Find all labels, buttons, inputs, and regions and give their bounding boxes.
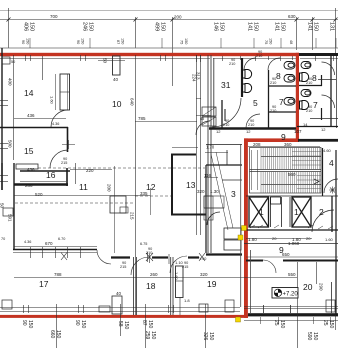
svg-text:320: 320 [197, 189, 205, 194]
svg-text:210: 210 [248, 123, 254, 127]
svg-text:12: 12 [216, 129, 221, 134]
svg-text:45: 45 [200, 117, 204, 121]
svg-text:150: 150 [123, 321, 129, 330]
svg-text:150: 150 [80, 320, 86, 329]
svg-text:785: 785 [138, 116, 146, 121]
svg-text:5: 5 [253, 98, 258, 108]
svg-text:12: 12 [246, 129, 251, 134]
svg-text:670: 670 [45, 241, 53, 246]
svg-text:320: 320 [200, 272, 208, 277]
svg-text:290: 290 [319, 283, 324, 291]
svg-text:150: 150 [29, 22, 35, 31]
svg-text:286: 286 [25, 183, 33, 188]
svg-text:18: 18 [146, 281, 156, 291]
svg-text:31: 31 [221, 80, 231, 90]
svg-text:1.60: 1.60 [325, 237, 334, 242]
svg-text:591: 591 [8, 214, 13, 222]
svg-text:8: 8 [312, 73, 317, 83]
svg-text:13: 13 [186, 180, 196, 190]
svg-text:520: 520 [35, 192, 43, 197]
svg-text:1.30: 1.30 [210, 189, 219, 194]
svg-text:400: 400 [8, 78, 13, 86]
svg-text:150: 150 [253, 22, 259, 31]
svg-text:150: 150 [219, 22, 225, 31]
svg-text:210: 210 [256, 54, 262, 58]
svg-text:19: 19 [207, 279, 217, 289]
svg-text:150: 150 [208, 332, 214, 341]
svg-text:788: 788 [54, 272, 62, 277]
svg-text:210: 210 [146, 251, 152, 255]
svg-text:640: 640 [130, 98, 135, 106]
svg-text:150: 150 [147, 320, 153, 329]
svg-text:14: 14 [24, 88, 34, 98]
svg-text:14: 14 [303, 122, 308, 127]
svg-text:150: 150 [27, 320, 33, 329]
svg-text:9: 9 [281, 132, 286, 142]
svg-text:1.8: 1.8 [184, 298, 190, 303]
svg-text:48: 48 [289, 40, 293, 44]
svg-text:+7.20: +7.20 [283, 292, 299, 298]
svg-text:220: 220 [86, 168, 94, 173]
svg-text:87: 87 [116, 40, 120, 44]
svg-text:1: 1 [259, 207, 264, 217]
svg-text:630: 630 [288, 14, 296, 19]
svg-text:700: 700 [50, 14, 58, 19]
svg-text:210: 210 [306, 109, 312, 113]
svg-text:40: 40 [113, 77, 119, 82]
svg-text:90: 90 [21, 40, 25, 44]
svg-text:17: 17 [39, 279, 49, 289]
svg-text:6.75: 6.75 [140, 242, 147, 246]
svg-text:335: 335 [140, 191, 148, 196]
svg-text:1: 1 [294, 207, 299, 217]
svg-text:200: 200 [174, 15, 182, 20]
svg-text:40: 40 [116, 291, 122, 296]
svg-text:4: 4 [329, 158, 334, 168]
svg-text:15: 15 [24, 146, 34, 156]
svg-text:150: 150 [269, 38, 273, 44]
svg-text:210: 210 [223, 123, 229, 127]
svg-text:150: 150 [279, 320, 285, 329]
svg-text:16: 16 [46, 170, 56, 180]
svg-text:150: 150 [55, 330, 61, 339]
svg-text:1.060: 1.060 [288, 241, 300, 246]
svg-text:210: 210 [270, 81, 276, 85]
svg-text:150: 150 [313, 22, 319, 31]
svg-text:50: 50 [0, 203, 5, 209]
svg-text:20: 20 [306, 236, 311, 241]
svg-text:1.40: 1.40 [199, 257, 206, 261]
svg-text:150: 150 [280, 22, 286, 31]
svg-text:150: 150 [160, 22, 166, 31]
svg-text:20: 20 [272, 236, 277, 241]
svg-text:215: 215 [120, 265, 126, 269]
svg-text:360: 360 [284, 142, 292, 147]
svg-text:1.70: 1.70 [206, 145, 215, 150]
svg-text:50: 50 [103, 58, 108, 64]
svg-text:4.60: 4.60 [323, 148, 332, 153]
svg-text:20: 20 [303, 282, 313, 292]
svg-text:260: 260 [150, 272, 158, 277]
svg-text:3: 3 [231, 189, 236, 199]
svg-text:215: 215 [61, 161, 67, 165]
svg-text:150: 150 [328, 320, 334, 329]
svg-text:150: 150 [26, 38, 30, 44]
svg-text:210: 210 [270, 109, 276, 113]
svg-text:436: 436 [27, 113, 35, 118]
svg-text:500: 500 [8, 140, 13, 148]
svg-text:12: 12 [321, 127, 326, 132]
svg-text:150: 150 [312, 332, 318, 341]
svg-text:210: 210 [229, 62, 235, 66]
svg-text:150: 150 [81, 38, 85, 44]
svg-text:4.36: 4.36 [24, 240, 31, 244]
svg-text:210: 210 [306, 81, 312, 85]
svg-text:116: 116 [204, 173, 212, 178]
svg-text:436: 436 [27, 167, 35, 172]
svg-text:150: 150 [88, 22, 94, 31]
svg-text:7: 7 [313, 100, 318, 110]
svg-text:4.36: 4.36 [52, 122, 59, 126]
svg-text:11: 11 [79, 182, 88, 192]
svg-text:50: 50 [11, 60, 15, 64]
svg-text:75: 75 [264, 40, 268, 44]
svg-text:107: 107 [294, 129, 302, 134]
svg-text:650: 650 [282, 252, 290, 257]
svg-text:150: 150 [121, 38, 125, 44]
svg-text:200: 200 [107, 184, 112, 192]
svg-text:2: 2 [319, 207, 324, 217]
svg-text:150: 150 [184, 38, 188, 44]
svg-text:215: 215 [182, 265, 188, 269]
svg-text:1.80: 1.80 [248, 237, 257, 242]
svg-text:90: 90 [76, 40, 80, 44]
svg-text:313: 313 [196, 72, 201, 80]
svg-text:6.70: 6.70 [58, 237, 65, 241]
svg-text:150: 150 [150, 331, 156, 340]
svg-text:7: 7 [279, 97, 284, 107]
svg-text:8: 8 [276, 71, 281, 81]
svg-text:1.60: 1.60 [174, 272, 179, 281]
svg-text:215: 215 [130, 212, 135, 220]
svg-text:70: 70 [1, 237, 5, 241]
svg-text:550: 550 [288, 272, 296, 277]
svg-text:10: 10 [112, 99, 122, 109]
svg-text:1.60: 1.60 [50, 96, 55, 105]
svg-text:560: 560 [288, 172, 296, 177]
svg-text:208: 208 [253, 142, 261, 147]
svg-text:131: 131 [329, 22, 335, 31]
svg-text:75: 75 [180, 40, 184, 44]
